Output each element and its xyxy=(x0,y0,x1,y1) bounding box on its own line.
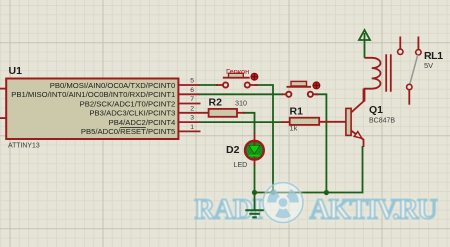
svg-text:PB2/SCK/ADC1/T0/PCINT2: PB2/SCK/ADC1/T0/PCINT2 xyxy=(80,99,176,108)
relay RL1 contact left stub xyxy=(399,37,401,50)
svg-text:R2: R2 xyxy=(209,97,223,109)
relay RL1 common terminal xyxy=(407,84,412,89)
svg-text:D2: D2 xyxy=(226,144,240,156)
transistor Q1 base bar xyxy=(346,108,351,135)
svg-text:1k: 1k xyxy=(290,124,298,133)
svg-text:PB5/ADC0/RESET/PCINT5: PB5/ADC0/RESET/PCINT5 xyxy=(81,127,175,136)
relay RL1 core bars xyxy=(385,54,387,91)
reed switch left terminal xyxy=(223,82,228,87)
button right terminal xyxy=(308,92,313,97)
wire R2 to LED xyxy=(243,113,255,134)
wire reed switch right to ground rail xyxy=(255,85,273,192)
svg-text:ATTINY13: ATTINY13 xyxy=(8,143,40,150)
reed switch right terminal xyxy=(245,82,250,87)
resistor R1 left pin xyxy=(282,121,290,123)
resistor R2 body xyxy=(209,109,237,117)
wire LED cathode to ground rail xyxy=(254,165,256,193)
wire pin5 to reed switch xyxy=(199,84,218,86)
pin stub left VCC xyxy=(0,88,7,90)
svg-text:PB0/MOSI/AIN0/OC0A/TXD/PCINT0: PB0/MOSI/AIN0/OC0A/TXD/PCINT0 xyxy=(50,81,176,90)
pin 3 stub xyxy=(179,121,200,123)
svg-text:PB3/ADC3/CLKI/PCINT3: PB3/ADC3/CLKI/PCINT3 xyxy=(89,109,175,118)
svg-text:1: 1 xyxy=(190,124,194,131)
svg-text:R1: R1 xyxy=(290,106,304,118)
led D2 triangle xyxy=(249,145,260,154)
led D2 body xyxy=(245,141,264,160)
pin 2 stub xyxy=(179,112,209,114)
ground symbol xyxy=(245,193,263,218)
transistor Q1 collector xyxy=(351,89,364,113)
svg-text:2: 2 xyxy=(190,105,194,112)
pin 5 stub xyxy=(179,84,200,86)
button bar xyxy=(287,86,312,88)
watermark RADIOAKTIV.RU xyxy=(195,182,438,226)
button actuator xyxy=(313,82,320,89)
reed switch bar xyxy=(223,77,250,79)
svg-text:3: 3 xyxy=(190,115,194,122)
svg-text:5V: 5V xyxy=(424,61,433,70)
svg-text:PB4/ADC2/PCINT4: PB4/ADC2/PCINT4 xyxy=(109,118,176,127)
relay RL1 contact right terminal xyxy=(416,50,421,55)
ground rail wire xyxy=(255,146,363,193)
button slider xyxy=(291,81,307,86)
svg-text:LED: LED xyxy=(234,161,248,169)
led D2 anode pin xyxy=(254,133,256,145)
svg-text:PB1/MISO/INT0/AIN1/OC0B/INT0/R: PB1/MISO/INT0/AIN1/OC0B/INT0/RXD/PCINT1 xyxy=(11,90,175,99)
junction reed-rail xyxy=(270,190,275,195)
pin 1 stub xyxy=(179,130,201,132)
relay RL1 blade xyxy=(410,55,418,85)
junction button-rail xyxy=(324,190,329,195)
button left pin xyxy=(282,93,286,95)
pin 6 stub xyxy=(179,93,200,95)
resistor R1 body xyxy=(290,118,320,125)
relay RL1 coil xyxy=(365,58,381,102)
svg-text:BC847B: BC847B xyxy=(369,117,395,124)
led D2 inner pin segments xyxy=(253,141,255,146)
resistor R1 right pin / base wire xyxy=(319,121,346,123)
svg-text:5: 5 xyxy=(190,78,194,85)
svg-text:Q1: Q1 xyxy=(369,104,383,116)
relay RL1 contact left terminal xyxy=(398,49,403,54)
svg-text:6: 6 xyxy=(190,87,194,94)
svg-text:310: 310 xyxy=(235,99,247,108)
svg-text:AKTIV.RU: AKTIV.RU xyxy=(310,195,438,226)
reed switch right pin xyxy=(250,84,257,86)
transistor Q1 emitter xyxy=(351,131,364,148)
junction LED-rail xyxy=(252,190,257,195)
svg-text:7: 7 xyxy=(190,96,194,103)
button left terminal xyxy=(286,92,291,97)
transistor Q1 emitter arrow xyxy=(354,132,362,139)
svg-text:U1: U1 xyxy=(9,65,23,77)
led D2 cathode pin xyxy=(254,156,256,166)
wire pin3 to R1 xyxy=(199,121,283,123)
power arrow VCC xyxy=(359,30,370,58)
button right pin xyxy=(313,93,318,95)
reed switch slider xyxy=(229,73,244,77)
relay RL1 common stub xyxy=(408,90,410,105)
resistor R2 right pin xyxy=(237,112,245,114)
wire pin6 to button xyxy=(199,93,283,95)
reed switch actuator button xyxy=(251,73,258,80)
reed switch left pin xyxy=(216,84,223,86)
relay RL1 contact right stub xyxy=(417,37,419,50)
led D2 cathode bar xyxy=(249,155,260,157)
pin stub left GND xyxy=(0,117,7,119)
pin 7 stub xyxy=(179,103,201,105)
wire button right to ground rail xyxy=(315,94,326,191)
ic U1 body xyxy=(6,79,178,140)
